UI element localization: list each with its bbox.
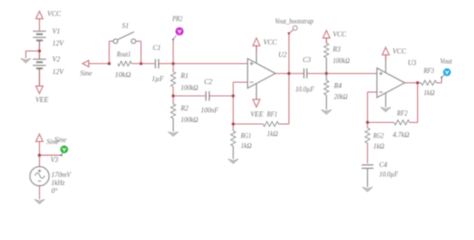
wire probe tap xyxy=(39,154,61,156)
probe Vout xyxy=(441,68,451,83)
label C3 10uF xyxy=(295,56,315,93)
svg-text:12V: 12V xyxy=(52,40,64,48)
node between V1 and V2 xyxy=(38,50,41,53)
wire U2 feedback bottom xyxy=(233,123,263,125)
wire U2 output xyxy=(275,73,303,75)
wire C2 to opamp - input xyxy=(209,95,233,97)
svg-text:20kΩ: 20kΩ xyxy=(334,93,348,101)
svg-text:VCC: VCC xyxy=(263,38,277,46)
svg-text:Sine: Sine xyxy=(54,136,66,144)
battery V2 xyxy=(33,51,46,86)
svg-text:VEE: VEE xyxy=(250,111,264,119)
svg-text:10.0µF: 10.0µF xyxy=(295,85,315,93)
label R2 100k xyxy=(180,105,199,125)
resistor RF2 xyxy=(368,120,410,125)
wire U3 output xyxy=(405,82,418,84)
label Vout_bootstrap xyxy=(275,17,314,25)
power connector VCC (left rail) xyxy=(36,10,61,31)
svg-text:RG2: RG2 xyxy=(372,132,384,140)
ground (below U3) xyxy=(381,93,391,112)
svg-text:Sine: Sine xyxy=(80,69,92,77)
resistor RG2 xyxy=(365,122,370,143)
op-amp U3 xyxy=(377,68,405,98)
wire Rout1 to C1 xyxy=(132,63,155,65)
svg-text:1kΩ: 1kΩ xyxy=(267,130,278,138)
wire Sine connector to V3 xyxy=(38,142,40,167)
label C2 100nF xyxy=(201,78,219,114)
wire inverting input riser xyxy=(233,82,247,124)
svg-text:VEE: VEE xyxy=(35,96,49,104)
svg-text:4.7kΩ: 4.7kΩ xyxy=(393,131,410,139)
svg-text:V2: V2 xyxy=(52,56,60,64)
svg-text:C3: C3 xyxy=(303,56,312,64)
resistor RF1 xyxy=(263,122,279,127)
svg-text:1kΩ: 1kΩ xyxy=(424,89,435,97)
ground (below C4) xyxy=(362,187,372,192)
svg-text:S1: S1 xyxy=(122,22,129,30)
label V3 values xyxy=(51,156,72,195)
wire node A up to probe PR2 xyxy=(172,39,174,63)
label RF2 4.7k xyxy=(393,109,410,139)
wire node to U3 + input xyxy=(326,73,377,75)
wire switch right branch xyxy=(136,41,141,63)
label V1 12V xyxy=(52,28,64,48)
svg-text:R2: R2 xyxy=(180,105,189,113)
svg-text:10.0µF: 10.0µF xyxy=(379,170,399,178)
svg-text:RF3: RF3 xyxy=(423,67,435,75)
svg-text:Vout_bootstrap: Vout_bootstrap xyxy=(275,17,314,25)
op-amp U2 xyxy=(248,59,276,89)
battery V1 xyxy=(33,31,46,51)
wire RF1 to output riser xyxy=(279,74,289,125)
ground (below R4) xyxy=(321,110,331,115)
power connector VEE (left rail) xyxy=(35,86,49,104)
svg-text:RF1: RF1 xyxy=(266,110,277,118)
label S1 xyxy=(122,22,129,30)
label RG1 1k xyxy=(240,132,252,150)
wire RG2 to C4 xyxy=(367,143,369,163)
svg-text:0°: 0° xyxy=(51,187,58,195)
label U3 xyxy=(408,59,417,67)
label Vout xyxy=(440,58,453,66)
wire RG1 to ground xyxy=(232,146,234,159)
label R4 20k xyxy=(333,82,348,101)
node A (C1 / R1 / probe tap) xyxy=(172,62,175,65)
probe Sine (green) xyxy=(60,146,68,157)
wire node A to R1 xyxy=(172,64,174,72)
wire R3 to node xyxy=(325,58,327,74)
node R3/R4 xyxy=(325,72,328,75)
resistor R1 xyxy=(171,72,176,87)
wire R4 to ground xyxy=(325,95,327,110)
label Sine (probe) xyxy=(54,136,66,144)
source V3 xyxy=(30,167,49,186)
resistor RG1 xyxy=(231,124,236,146)
wire Sine to switch node xyxy=(89,63,109,65)
svg-text:1µF: 1µF xyxy=(152,75,165,83)
output connector Sine (to top path) xyxy=(36,134,59,146)
svg-text:Rout1: Rout1 xyxy=(116,50,131,58)
power connector VCC (R3) xyxy=(323,30,347,43)
svg-text:VCC: VCC xyxy=(393,48,407,56)
wire U3 inverting riser xyxy=(368,92,377,122)
wire switch left branch xyxy=(109,41,113,63)
node C2 / RG1 / inverting input xyxy=(232,94,235,97)
label RF1 1k xyxy=(266,110,278,138)
wire R2 to ground xyxy=(172,118,174,131)
svg-text:VCC: VCC xyxy=(47,10,61,18)
svg-text:100nF: 100nF xyxy=(201,106,219,114)
ground (battery midpoint) xyxy=(21,58,31,63)
svg-text:R1: R1 xyxy=(180,72,189,80)
svg-text:V1: V1 xyxy=(52,28,60,36)
svg-text:PR2: PR2 xyxy=(172,15,183,23)
capacitor C2 xyxy=(206,91,209,101)
node R1/R2 (divider tap) xyxy=(172,94,175,97)
svg-text:12V: 12V xyxy=(52,68,64,76)
svg-text:V3: V3 xyxy=(51,156,59,164)
power connector VEE (U2) xyxy=(250,84,264,119)
label U2 xyxy=(278,51,287,59)
capacitor C1 xyxy=(155,59,158,68)
resistor Rout1 xyxy=(118,61,132,66)
ground (below V3) xyxy=(34,199,44,204)
node U3 output xyxy=(416,81,419,84)
wire C1 to opamp + input xyxy=(159,63,248,65)
node RG2/RF2 xyxy=(366,121,369,124)
svg-text:C2: C2 xyxy=(204,78,213,86)
svg-text:U3: U3 xyxy=(408,59,417,67)
svg-text:1kHz: 1kHz xyxy=(51,179,65,187)
wire R1 to R2 xyxy=(172,87,174,104)
resistor R4 xyxy=(324,74,329,96)
ground (below RG1) xyxy=(228,159,238,164)
svg-text:RG1: RG1 xyxy=(240,132,251,140)
svg-text:100kΩ: 100kΩ xyxy=(181,84,199,92)
wire divider tap to C2 xyxy=(173,95,205,97)
input connector Sine (left arrow) xyxy=(80,60,92,77)
label Rout1 10k xyxy=(115,50,131,79)
svg-text:100kΩ: 100kΩ xyxy=(333,57,350,65)
label RG2 1k xyxy=(372,132,384,151)
wire C4 to ground xyxy=(367,168,369,187)
svg-text:100kΩ: 100kΩ xyxy=(181,116,199,124)
wire bootstrap riser xyxy=(288,33,290,73)
label V2 12V xyxy=(52,56,64,76)
wire V3 to ground xyxy=(39,186,41,200)
node switch left xyxy=(108,62,111,65)
switch S1 xyxy=(113,32,135,44)
ground (below R2) xyxy=(168,132,178,137)
label PR2 xyxy=(172,15,183,23)
svg-text:RF2: RF2 xyxy=(396,109,408,117)
node RF1/RG1 xyxy=(232,123,235,126)
label C4 10uF xyxy=(379,161,399,178)
svg-text:C4: C4 xyxy=(379,161,388,169)
svg-text:10kΩ: 10kΩ xyxy=(115,71,131,79)
svg-text:1kΩ: 1kΩ xyxy=(373,143,384,151)
svg-text:U2: U2 xyxy=(278,51,287,59)
label C1 1uF xyxy=(152,44,165,83)
node U2 output xyxy=(287,72,290,75)
power connector VCC (U2) xyxy=(253,38,277,63)
label RF3 1k xyxy=(423,67,435,97)
wire C3 to R3/R4 node xyxy=(307,73,327,75)
resistor R3 xyxy=(324,43,329,58)
label R1 100k xyxy=(180,72,199,92)
wire RF2 to output riser xyxy=(410,83,418,123)
svg-text:170mV: 170mV xyxy=(51,171,71,179)
capacitor C4 xyxy=(362,165,374,168)
wire to ground from battery midpoint xyxy=(26,51,40,58)
svg-text:R4: R4 xyxy=(333,82,342,90)
resistor RF3 xyxy=(418,80,442,85)
svg-text:R3: R3 xyxy=(332,46,341,54)
svg-text:Vout: Vout xyxy=(440,58,453,66)
label R3 100k xyxy=(332,46,350,65)
svg-text:1kΩ: 1kΩ xyxy=(241,142,252,150)
svg-text:VCC: VCC xyxy=(333,30,347,38)
node V3 top / probe tap xyxy=(38,154,41,157)
node switch right xyxy=(140,62,143,65)
resistor R2 xyxy=(171,104,176,119)
connector Vout_bootstrap xyxy=(288,26,298,35)
power connector VCC (U3) xyxy=(382,47,406,73)
capacitor C3 xyxy=(304,68,307,78)
probe PR2 xyxy=(172,27,183,40)
svg-text:C1: C1 xyxy=(153,44,161,52)
